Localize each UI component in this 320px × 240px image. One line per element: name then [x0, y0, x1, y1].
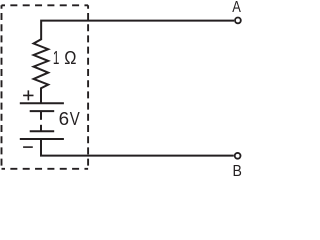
- svg-text:A: A: [232, 0, 241, 16]
- wire top (node to terminal A): [41, 21, 234, 40]
- terminal A circle: [235, 18, 241, 24]
- minus polarity mark: [23, 146, 33, 148]
- battery B1 short plate 1: [30, 110, 55, 112]
- resistor R (1 ohm) zigzag: [34, 39, 49, 103]
- battery B1 positive long plate (top): [20, 102, 64, 104]
- svg-text:1: 1: [53, 47, 60, 68]
- dashed box right edge: [87, 5, 89, 169]
- wire bottom (battery to terminal B): [41, 139, 234, 156]
- dashed box top edge: [2, 4, 89, 6]
- dashed box (source enclosure): [2, 5, 89, 169]
- battery B1 long plate (bottom): [20, 138, 64, 140]
- svg-text:Ω: Ω: [64, 47, 76, 68]
- dashed box left edge: [1, 5, 3, 169]
- battery B1 short plate 2: [30, 130, 55, 132]
- plus polarity mark: [23, 90, 33, 100]
- battery inter-cell stub upper: [40, 111, 42, 120]
- battery inter-cell stub lower: [40, 125, 42, 131]
- dashed box bottom edge: [2, 168, 89, 170]
- svg-text:6: 6: [59, 108, 69, 129]
- svg-text:V: V: [70, 108, 80, 129]
- terminal B circle: [235, 153, 241, 159]
- svg-text:B: B: [233, 163, 242, 177]
